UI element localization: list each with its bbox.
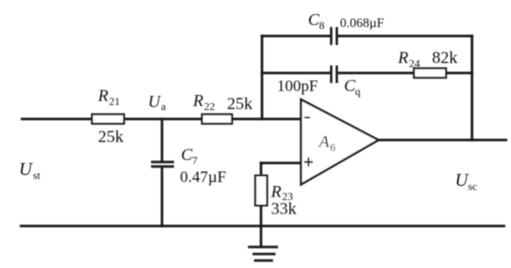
- node A : Ua label: [148, 92, 166, 113]
- wire : output line from op-amp apex to right edge: [378, 139, 506, 142]
- op-amp U1 : A6: [301, 100, 379, 185]
- svg-text:100pF: 100pF: [277, 78, 318, 95]
- wire : top feedback line right of C8: [338, 35, 472, 38]
- ground: [248, 247, 278, 261]
- wire : main input line from source to op-amp inverting input: [22, 118, 301, 121]
- svg-text:U: U: [19, 159, 33, 179]
- wire : left feedback vertical from inverting node up: [261, 36, 264, 119]
- svg-text:R: R: [97, 86, 109, 105]
- resistor R21: [92, 86, 124, 146]
- svg-text:0.068µF: 0.068µF: [340, 15, 384, 30]
- svg-text:q: q: [355, 86, 361, 98]
- svg-text:24: 24: [409, 58, 421, 70]
- wire : ground stub: [260, 226, 263, 247]
- wire : C7 bottom plate down to bottom rail: [161, 167, 164, 226]
- svg-text:33k: 33k: [271, 199, 297, 218]
- svg-text:R: R: [192, 91, 204, 110]
- node : input Ust label: [19, 159, 40, 182]
- svg-text:0.47µF: 0.47µF: [180, 169, 226, 186]
- svg-text:22: 22: [204, 101, 215, 113]
- capacitor C8: [308, 10, 384, 45]
- svg-text:8: 8: [319, 20, 325, 32]
- svg-text:6: 6: [330, 142, 336, 154]
- svg-text:25k: 25k: [227, 94, 253, 113]
- resistor R22: [192, 91, 253, 124]
- node : output Usc label: [455, 170, 477, 193]
- svg-text:82k: 82k: [432, 48, 458, 67]
- svg-text:R: R: [397, 48, 409, 67]
- wire : inner feedback line left of C9: [262, 72, 330, 75]
- wire : branch from + input down through R23 to bottom rail: [260, 163, 263, 226]
- svg-text:A: A: [318, 132, 330, 151]
- wire : node Ua branch down to C7 top plate: [161, 119, 164, 162]
- wire : top feedback line left of C8: [262, 35, 330, 38]
- wire : bottom rail: [21, 225, 504, 228]
- svg-text:U: U: [455, 170, 469, 190]
- svg-text:7: 7: [192, 155, 198, 167]
- wire : inner feedback line from C9 through R24 to right vertical: [338, 72, 472, 75]
- svg-text:U: U: [148, 92, 162, 111]
- svg-text:sc: sc: [468, 181, 477, 193]
- capacitor C9: [277, 66, 361, 99]
- wire : right feedback vertical down to output: [471, 36, 474, 140]
- resistor R24: [397, 48, 458, 78]
- svg-text:st: st: [33, 170, 40, 182]
- svg-text:25k: 25k: [98, 127, 124, 146]
- svg-text:21: 21: [109, 96, 120, 108]
- svg-text:a: a: [161, 101, 166, 113]
- resistor R23: [255, 176, 297, 219]
- capacitor C7: [151, 145, 226, 186]
- wire : non-inverting input line: [261, 162, 301, 165]
